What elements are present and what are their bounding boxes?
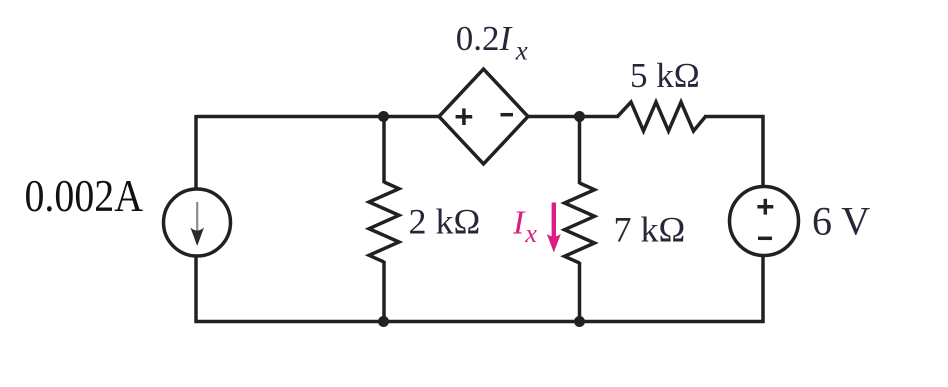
current source I1 (0.002 A) [164,189,231,256]
arrow: Ix current direction (pink) [547,203,561,253]
svg-text:5 kΩ: 5 kΩ [630,56,700,95]
wire: left rail upper [194,115,198,190]
svg-text:7 kΩ: 7 kΩ [614,210,686,250]
wire: top rail mid segment [526,115,619,119]
resistor R1 2 kOhm [369,182,399,262]
svg-text:6 V: 6 V [812,199,870,244]
resistor R3 5 kOhm [618,102,706,131]
svg-text:0.002A: 0.002A [25,171,144,221]
wire: top rail right segment [704,115,765,119]
wire: 2k top lead [382,117,386,184]
wire: right rail lower [761,254,765,323]
wire: top rail left segment [196,115,440,119]
wire: right rail upper [761,115,765,188]
junction dot: top node B [574,111,585,122]
wire: 7k top lead [578,117,582,185]
junction dot: top node A [378,111,389,122]
junction dot: bottom of 2k branch [378,316,389,327]
wire: 7k bottom lead [578,262,582,322]
resistor R2 7 kOhm [565,183,595,263]
junction dot: bottom of 7k branch [574,316,585,327]
wire: bottom rail [195,320,765,324]
wire: left rail lower [194,255,198,323]
svg-text:2 kΩ: 2 kΩ [409,202,481,242]
svg-text:0.2Ix: 0.2Ix [456,19,528,66]
voltage source V1 (6 V) [730,187,799,256]
svg-text:Ix: Ix [512,205,537,249]
wire: 2k bottom lead [382,261,386,322]
dependent voltage source U1 (0.2 Ix) [439,69,528,164]
